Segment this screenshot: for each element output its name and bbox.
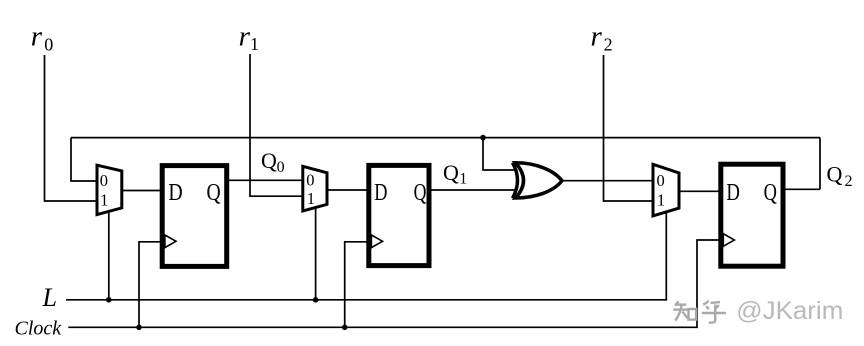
- U4 clock input triangle: [371, 235, 382, 248]
- svg-text:D: D: [726, 180, 740, 206]
- wire Q1 from U4 to XOR bottom input: [430, 189, 517, 191]
- svg-text:Clock: Clock: [15, 318, 63, 340]
- wire Q2 output: [785, 188, 820, 190]
- label Clock: [15, 318, 63, 340]
- U7 label Q: [764, 180, 777, 206]
- svg-text:L: L: [42, 283, 57, 312]
- label r2: [591, 21, 613, 55]
- mux U3 pin label 1: [307, 189, 315, 208]
- svg-text:@JKarim: @JKarim: [736, 297, 843, 325]
- label Q0: [261, 148, 285, 176]
- flip-flop U4: [369, 165, 429, 265]
- wire feedback left elbow to mux1 input 0: [71, 138, 96, 181]
- wire feedback to XOR top input: [483, 138, 517, 170]
- U7 clock input triangle: [723, 234, 734, 247]
- watermark 知 glyph: [672, 300, 725, 322]
- svg-text:r: r: [239, 21, 251, 53]
- mux U1 pin label 0: [100, 171, 108, 190]
- junction dot U4 clock on Clock: [342, 325, 348, 331]
- mux U3: [303, 166, 327, 211]
- watermark 乎 glyph: [702, 301, 726, 323]
- wire mux2 output to U4 D: [328, 189, 369, 191]
- svg-text:0: 0: [306, 170, 314, 189]
- wire mux U3 select: [315, 207, 317, 300]
- wire Clock line with U7 clock branch: [68, 240, 720, 327]
- label L: [42, 283, 57, 312]
- wire L line with mux U6 select: [66, 211, 666, 300]
- wire Q0 from U2 to mux2 input 0: [228, 179, 302, 181]
- svg-text:0: 0: [277, 159, 285, 176]
- xor gate U5: [513, 163, 563, 199]
- wire U4 clock branch: [345, 242, 369, 327]
- svg-text:0: 0: [44, 35, 53, 55]
- U2 label D: [168, 180, 182, 206]
- mux U6: [653, 164, 679, 216]
- wire r2 to mux3 input 1: [604, 55, 653, 201]
- label Q1: [443, 160, 467, 187]
- U4 label Q: [414, 180, 427, 206]
- svg-text:1: 1: [250, 34, 259, 54]
- svg-text:2: 2: [604, 35, 613, 55]
- junction dot U2 clock on Clock: [136, 325, 142, 331]
- wire r0 to mux1 input 1: [45, 55, 97, 201]
- svg-text:r: r: [31, 21, 43, 53]
- svg-text:1: 1: [459, 170, 467, 187]
- label r0: [31, 21, 54, 55]
- wire mux U1 select: [108, 211, 110, 300]
- wire feedback right drop from Q2: [819, 138, 821, 190]
- flip-flop U2: [162, 166, 227, 267]
- svg-text:D: D: [374, 180, 387, 206]
- svg-text:0: 0: [100, 171, 108, 190]
- svg-text:Q: Q: [443, 160, 459, 185]
- U2 clock input triangle: [165, 235, 176, 248]
- junction dot on feedback bus: [480, 135, 486, 141]
- svg-text:Q: Q: [261, 148, 277, 173]
- U2 label Q: [207, 180, 221, 206]
- mux U1: [97, 165, 122, 214]
- wire r1 to mux2 input 1: [250, 54, 302, 196]
- svg-text:1: 1: [307, 189, 315, 208]
- flip-flop U7: [721, 164, 783, 266]
- svg-text:D: D: [168, 180, 182, 206]
- mux U6 pin label 0: [657, 171, 665, 190]
- wire feedback top bus: [71, 137, 820, 139]
- svg-text:Q: Q: [827, 162, 843, 187]
- wire mux1 output to U2 D: [122, 190, 161, 192]
- mux U1 pin label 1: [100, 191, 108, 210]
- mux U6 pin label 1: [657, 190, 665, 209]
- wire mux3 output to U6 D: [680, 190, 722, 192]
- junction dot mux U1 select on L: [106, 297, 112, 303]
- junction dot mux U3 select on L: [313, 297, 319, 303]
- label r1: [239, 21, 259, 55]
- svg-text:Q: Q: [207, 180, 221, 206]
- svg-text:2: 2: [845, 173, 853, 190]
- svg-text:r: r: [591, 21, 603, 53]
- mux U3 pin label 0: [306, 170, 314, 189]
- wire U2 clock branch: [139, 242, 162, 327]
- U7 label D: [726, 180, 740, 206]
- svg-text:0: 0: [657, 171, 665, 190]
- svg-text:1: 1: [657, 190, 665, 209]
- svg-text:1: 1: [100, 191, 108, 210]
- label Q2: [827, 162, 853, 191]
- wire XOR output to mux3 input 0: [562, 180, 652, 182]
- svg-text:Q: Q: [414, 180, 427, 206]
- svg-text:Q: Q: [764, 180, 777, 206]
- U4 label D: [374, 180, 387, 206]
